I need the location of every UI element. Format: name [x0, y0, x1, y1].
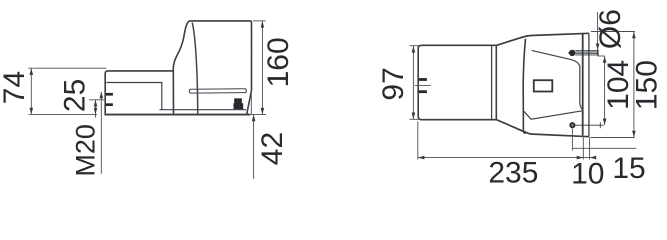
svg-text:235: 235 [488, 157, 538, 187]
svg-text:42: 42 [256, 132, 289, 165]
svg-text:74: 74 [0, 71, 31, 104]
svg-text:10: 10 [571, 157, 604, 187]
svg-text:160: 160 [262, 37, 295, 87]
svg-text:25: 25 [59, 79, 92, 112]
svg-text:97: 97 [377, 67, 410, 100]
svg-text:15: 15 [612, 152, 645, 185]
svg-text:150: 150 [631, 60, 664, 110]
svg-text:M20: M20 [70, 124, 100, 177]
svg-text:Ø6: Ø6 [594, 9, 627, 49]
